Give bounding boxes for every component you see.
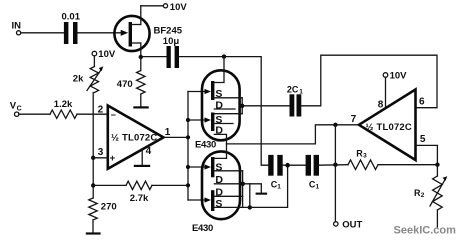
node OUT terminal <box>334 219 363 230</box>
wire 2C1 to top feedback rail <box>301 55 437 107</box>
resistor R3 <box>348 148 378 169</box>
wire gate bus vertical <box>187 92 189 201</box>
wire bracket node to ground stub <box>243 184 261 193</box>
svg-text:½ TL072C: ½ TL072C <box>111 133 157 144</box>
svg-text:3: 3 <box>363 152 367 159</box>
svg-text:6: 6 <box>419 97 425 108</box>
node between C1s <box>285 163 290 168</box>
ground (pin 4) <box>134 165 150 167</box>
transistor U3b channel <box>211 187 243 211</box>
wire op1 output to gate bus <box>164 136 189 138</box>
wire 10u to corner, down to C1a <box>179 57 268 166</box>
op-amp U4 (1/2 TL072C, mirrored) <box>351 90 426 161</box>
svg-text:2k: 2k <box>73 74 84 85</box>
potentiometer 2k <box>73 66 104 92</box>
capacitor 2C1 <box>287 85 303 117</box>
chopper U3 E430 (bottom) <box>202 151 240 219</box>
wire C1a to node <box>283 164 306 166</box>
wire pin5 to R2 node <box>416 145 438 164</box>
svg-text:10V: 10V <box>390 71 408 82</box>
svg-text:+: + <box>110 153 116 164</box>
svg-text:E430: E430 <box>192 223 213 234</box>
wire gate lead 2 <box>188 117 211 122</box>
transistor U2a channel <box>211 57 242 112</box>
svg-text:2: 2 <box>421 192 425 199</box>
svg-text:10μ: 10μ <box>163 36 180 47</box>
svg-text:470: 470 <box>117 79 133 90</box>
svg-text:OUT: OUT <box>342 219 362 230</box>
wire drain to 10V <box>141 5 164 7</box>
svg-text:7: 7 <box>351 114 357 125</box>
ground (below 270) <box>86 232 101 234</box>
resistor 470 <box>117 71 145 95</box>
svg-text:8: 8 <box>378 99 384 110</box>
node 2.7k junction <box>91 183 95 187</box>
svg-text:IN: IN <box>12 21 22 32</box>
ground (mid, chopper) <box>256 193 268 195</box>
node R3-left/OUT junction <box>333 163 337 167</box>
svg-text:−: − <box>111 110 116 120</box>
svg-text:10V: 10V <box>98 49 116 60</box>
wire R3 to pin5 node <box>378 164 437 166</box>
node bracket junction <box>240 104 244 108</box>
node bottom rail junction <box>248 205 252 209</box>
svg-text:1: 1 <box>299 88 303 95</box>
node Vc terminal <box>10 101 22 117</box>
wire gate lead 4 <box>188 197 211 202</box>
wire branch down to bottom rail <box>249 184 251 208</box>
resistor 2.7k <box>93 181 188 204</box>
node bracket junction (bottom) <box>241 182 245 186</box>
wire bracket (top E430 S/D tie) <box>241 98 243 114</box>
wire bracket to 2C1 <box>242 105 289 107</box>
svg-text:E430: E430 <box>195 140 216 151</box>
svg-text:270: 270 <box>101 202 117 213</box>
svg-text:½ TL072C: ½ TL072C <box>366 122 412 133</box>
svg-text:2.7k: 2.7k <box>130 193 149 204</box>
wire bracket (bottom E430 tie) <box>242 171 244 208</box>
wire OUT vertical <box>334 125 336 222</box>
svg-text:1: 1 <box>277 183 281 190</box>
op-amp U1 (1/2 TL072C) <box>98 105 171 169</box>
wire pin4 to ground <box>141 150 143 166</box>
wire gate lead 3 <box>188 164 211 169</box>
transistor U3a channel <box>211 144 243 186</box>
resistor 1.2k <box>50 99 77 118</box>
wire IN to C0.01 <box>21 32 64 34</box>
transistor U2b channel <box>211 113 242 144</box>
wire 270 to ground <box>92 220 94 233</box>
svg-text:2C: 2C <box>287 85 299 95</box>
node pin7/OUT junction <box>333 123 337 127</box>
svg-text:1.2k: 1.2k <box>54 99 73 110</box>
resistor 270 <box>89 198 117 220</box>
svg-text:1: 1 <box>165 127 171 138</box>
svg-text:2: 2 <box>98 105 104 116</box>
capacitor 0.01 <box>62 12 81 44</box>
svg-text:SeekIC.com: SeekIC.com <box>394 224 457 236</box>
chopper U2 E430 (top) <box>202 70 240 140</box>
node pin3 junction <box>91 156 95 160</box>
svg-text:1: 1 <box>316 183 320 190</box>
node bus junctions <box>186 118 190 188</box>
wire pin3 <box>93 157 108 159</box>
power +10V (above 2k) <box>92 49 116 60</box>
power +10V (op amp 2) <box>383 71 407 82</box>
wire 10V to 2k pot <box>93 56 95 67</box>
power +10V (top) <box>163 2 187 13</box>
wire pin3 node down to 2.7k node <box>92 158 94 198</box>
ground (below 470) <box>133 106 148 108</box>
wire gate lead 1 <box>188 89 211 94</box>
node IN terminal <box>12 21 22 35</box>
wire pin7 to C network <box>227 125 359 144</box>
svg-text:0.01: 0.01 <box>62 12 81 23</box>
node source junction <box>139 55 143 59</box>
wire bottom rail to caps node <box>243 165 288 207</box>
wire 1.2k to op-amp pin 2 <box>77 113 108 115</box>
svg-text:5: 5 <box>420 134 426 145</box>
node junction on 10u wire (top of E430 drain) <box>222 54 226 58</box>
wire source node down to R470 <box>140 57 142 71</box>
potentiometer R2 <box>414 165 447 227</box>
svg-text:10V: 10V <box>170 2 188 13</box>
wire C1b to R3 node <box>319 164 348 167</box>
svg-text:4: 4 <box>146 146 152 157</box>
capacitor C1 (right) <box>306 155 320 191</box>
node R3/R2/pin5 junction <box>435 163 439 167</box>
wire Vc to 1.2k <box>19 113 50 115</box>
capacitor 10u <box>143 36 179 68</box>
wire R470 to ground <box>140 94 142 107</box>
transistor Q1 BF245 <box>114 6 182 57</box>
svg-text:3: 3 <box>98 147 104 158</box>
svg-text:C: C <box>17 105 22 112</box>
wire pin8 to 10V <box>385 78 387 108</box>
capacitor C1 (left) <box>268 155 282 191</box>
svg-text:S: S <box>215 161 222 173</box>
wire C0.01 to Q1 gate <box>78 32 126 34</box>
wire 2k pot down to pin3 node (crosses Vc wire) <box>92 93 94 158</box>
